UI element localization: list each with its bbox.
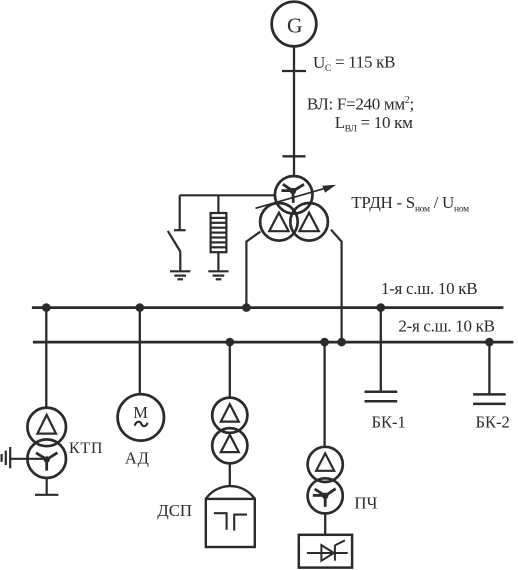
svg-text:2-я с.ш. 10 кВ: 2-я с.ш. 10 кВ [398, 317, 494, 336]
svg-text:ДСП: ДСП [157, 501, 192, 520]
svg-text:БК-1: БК-1 [372, 412, 406, 431]
svg-text:АД: АД [125, 449, 150, 468]
svg-text:ТРДН - Sном / Uном: ТРДН - Sном / Uном [351, 193, 469, 215]
svg-text:КТП: КТП [69, 440, 103, 457]
svg-text:G: G [287, 13, 303, 37]
svg-text:БК-2: БК-2 [476, 412, 510, 431]
svg-text:1-я с.ш. 10 кВ: 1-я с.ш. 10 кВ [381, 279, 477, 298]
svg-text:ВЛ: F=240 мм2;: ВЛ: F=240 мм2; [307, 94, 414, 113]
svg-text:ПЧ: ПЧ [354, 493, 377, 512]
svg-text:M: M [133, 403, 148, 422]
